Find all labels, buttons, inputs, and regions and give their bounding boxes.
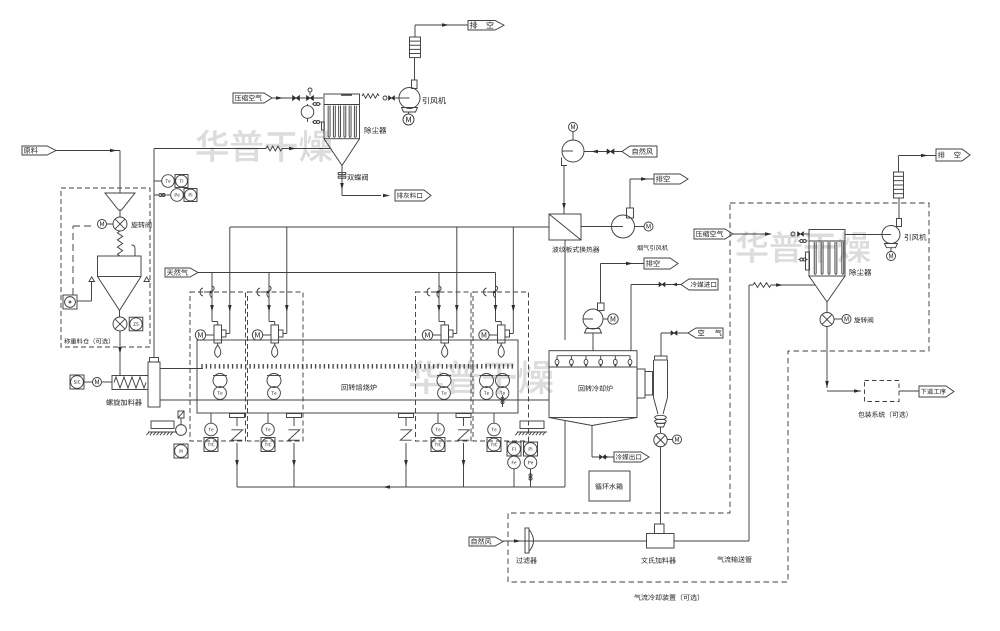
dust collector 1 cone (324, 139, 342, 166)
label rotary kiln (342, 384, 377, 391)
watermark 3 (736, 231, 870, 263)
rotary valve 3 motor (842, 315, 851, 324)
plate heat exchanger (549, 214, 581, 240)
burner group 2 dashed box (248, 292, 304, 441)
flue gas fan (612, 215, 635, 238)
label rotary valve V1 (131, 222, 151, 228)
flag: ash discharge port (395, 190, 431, 201)
kiln gas tap (502, 395, 504, 407)
burner 4 air drop (512, 227, 514, 313)
burner group 3 dashed box (416, 292, 472, 441)
flag: natural gas 天然气 (165, 268, 198, 277)
pressure gauge (301, 106, 314, 119)
label rotary valve 3 (854, 317, 873, 323)
burner 1 body (214, 325, 222, 343)
wire raw-material to funnel (56, 150, 120, 152)
kiln thermocouple at 502.5 (496, 375, 510, 377)
wire kiln exhaust riser (153, 149, 155, 358)
wire natural gas header (198, 272, 496, 274)
cyclone lid (655, 356, 668, 360)
kiln bottom instrument at 494 (493, 413, 495, 423)
discharge valve V2 (113, 317, 127, 331)
cyclone valve motor (673, 435, 682, 444)
cyclone butterfly (655, 415, 667, 419)
flag: coolant outlet 冷媒出口 (614, 452, 649, 462)
wire coolant outlet (591, 426, 593, 458)
burner 4 motor (479, 330, 489, 340)
cyclone body (653, 360, 655, 398)
flag: compressed air 压缩空气 (233, 93, 272, 103)
burner 3 air drop (456, 227, 458, 313)
dust collector 2 bags (813, 242, 815, 274)
exhaust instruments PI (154, 194, 170, 196)
wire exhaust to dust collector (154, 148, 266, 150)
kiln support left (151, 421, 174, 429)
wire fan to exchanger (563, 166, 565, 215)
flag: natural wind 自然风 bottom (469, 537, 503, 546)
burner 4 body (498, 325, 506, 343)
kiln thermocouple at 486.5 (480, 375, 494, 377)
rotary kiln shell (197, 340, 518, 413)
burner 3 gas drop (438, 273, 440, 314)
circulating water tank (589, 471, 630, 501)
watermark 1 (196, 130, 332, 162)
wire exchanger to cooler (564, 240, 566, 340)
wire fan1 to silencer (414, 58, 416, 80)
valve on air line (293, 96, 300, 101)
dust collector 2 housing (809, 230, 845, 277)
dust collector 2 cone (809, 276, 827, 302)
burner 4 gas drop (495, 273, 497, 314)
venturi feeder (655, 524, 665, 534)
burner 2 gas drop (268, 273, 270, 314)
wire compressed air (272, 97, 323, 99)
feeder motor M2 (93, 378, 102, 387)
label dust collector 2 (850, 269, 872, 276)
label air cooling unit (634, 594, 699, 601)
weight transmitter (63, 295, 77, 309)
load cell right (144, 277, 150, 282)
packaging system dashed box (865, 381, 900, 402)
burner 3 check valve (427, 288, 430, 296)
wire kiln bottom header (237, 486, 565, 488)
kiln thermocouple at 274 (267, 375, 281, 377)
label filter (516, 557, 537, 563)
flag: air 空气 (688, 328, 723, 338)
rotary cooler body (549, 367, 637, 418)
cooler discharge boxes (637, 369, 645, 398)
burner 1 motor (195, 330, 205, 340)
valve V2 instrument (129, 317, 143, 331)
feeder instrument (70, 375, 84, 389)
kiln thermocouple at 444 (437, 375, 451, 377)
wire collector2 to fan2 (845, 234, 882, 236)
wire packaging to next (899, 390, 919, 392)
flex connector on conveying pipe (753, 283, 771, 288)
dashed region: optional equipment (508, 203, 929, 582)
label heat exchanger (552, 246, 599, 252)
kiln inner top line (161, 368, 204, 370)
pulse air header (322, 122, 325, 130)
flex connector (266, 146, 282, 151)
silencer coil (410, 37, 421, 58)
burner 2 body (271, 325, 279, 343)
flag: vent 排空 pump (644, 258, 678, 269)
burner 4 check valve (484, 288, 487, 296)
label conveying pipe (717, 556, 751, 562)
flag: raw material 原料 (22, 146, 56, 155)
kiln seal vent at 237 (230, 414, 245, 418)
fan 1 motor (403, 114, 414, 125)
flag: vent 排空 mid (654, 174, 688, 184)
label rotary cooler (579, 385, 613, 392)
burner 3 body (441, 325, 449, 343)
burner 2 air drop (286, 227, 288, 313)
induced draft fan 2 (882, 226, 900, 244)
wire conveying pipe (674, 540, 749, 542)
exhaust instruments TI (154, 180, 162, 182)
burner group 4 dashed box (473, 292, 529, 441)
cooler bottom funnel (549, 418, 592, 426)
air filter (525, 528, 529, 553)
wire to packaging (826, 327, 828, 389)
label packaging system (858, 411, 907, 417)
wire fan2 vent (898, 156, 900, 173)
label venturi feeder (641, 557, 676, 564)
label dust collector 1 (365, 127, 387, 134)
load cell signal wire (91, 282, 93, 302)
flag: next process 下道工序 (919, 386, 954, 397)
wire pump vent (600, 264, 602, 304)
cooling water pump (583, 309, 603, 329)
burner 1 check valve (200, 288, 203, 296)
label weighing silo (64, 338, 110, 344)
fresh air fan motor (569, 123, 578, 132)
gas train instrument circles (508, 456, 521, 469)
burner 1 flame (217, 343, 219, 345)
flag: compressed air 2 (694, 229, 733, 239)
double butterfly valve (341, 166, 343, 196)
burner 1 air drop (229, 227, 231, 313)
kiln bottom instrument at 268 (267, 413, 269, 423)
burner 1 gas drop (211, 273, 213, 314)
wire header riser to cooler (564, 421, 566, 487)
wire conveying air (503, 540, 647, 542)
flex connector to fan (362, 94, 379, 98)
burner 3 flame (444, 343, 446, 345)
filter bags (327, 106, 329, 137)
kiln thermocouple at 220 (213, 375, 227, 377)
pulse header 2 (806, 252, 810, 270)
rotary valve V1 (113, 217, 127, 231)
wire flue fan to vent (629, 179, 631, 208)
flue fan motor (644, 222, 653, 231)
kiln bottom instrument at 438 (437, 413, 439, 423)
label double butterfly valve (347, 174, 368, 181)
wire preheated air header (230, 226, 549, 228)
wire exchanger to flue fan (581, 226, 612, 228)
burner 4 flame (500, 343, 502, 345)
weighing hopper body (98, 256, 142, 277)
spring connector (117, 231, 122, 256)
cyclone cone (654, 398, 659, 415)
burner 3 motor (422, 330, 432, 340)
burner 2 check valve (257, 288, 260, 296)
wire valve to venturi (660, 447, 662, 524)
gas train instrument squares (507, 442, 521, 456)
wire coolant inlet (631, 284, 681, 286)
chute drive instrument (174, 444, 188, 458)
cooler spray plenum (549, 351, 637, 367)
dust collector 1 housing (324, 94, 360, 139)
flag: vent 排空 right (936, 149, 970, 161)
cyclone discharge valve (654, 433, 667, 446)
label screw feeder (106, 399, 142, 406)
load cell left (89, 277, 95, 282)
flag: vent 排空 top (468, 21, 504, 31)
pump motor (608, 314, 618, 324)
kiln support right (520, 421, 544, 429)
fan 2 motor (887, 252, 896, 261)
burner 2 motor (252, 330, 262, 340)
rotary valve 3 (826, 302, 828, 313)
label fan 1 (423, 97, 446, 104)
wire to screw feeder (119, 331, 121, 376)
kiln seal vent at 463.5 (456, 414, 471, 418)
valve before fan (383, 96, 387, 100)
funnel (105, 193, 135, 210)
label fan 2 (905, 234, 927, 241)
induced draft fan 1 (399, 88, 420, 109)
kiln gear ticks (202, 364, 512, 369)
label flue gas fan (637, 245, 668, 251)
globe valve (307, 96, 314, 101)
burner group 1 dashed box (190, 292, 246, 441)
chute drive motor (176, 425, 187, 436)
wire to vent (414, 25, 416, 37)
silencer coil 2 (898, 198, 900, 219)
signal line (dashed) (72, 226, 74, 295)
hopper cone (98, 277, 120, 311)
motor M1 (98, 220, 107, 229)
kiln inlet chute (148, 362, 160, 407)
chute drive coupling (178, 411, 184, 418)
wire compressed air 2 (733, 233, 766, 235)
flag: coolant inlet 冷媒进口 (681, 279, 718, 290)
burner 2 flame (274, 343, 276, 345)
flag: natural wind 自然风 top (622, 146, 657, 157)
wire air to cyclone (661, 332, 688, 334)
kiln seal vent at 406 (399, 414, 414, 418)
kiln inner bottom line (161, 399, 550, 401)
wire to ash port (342, 195, 381, 197)
wire cone to discharge valve (119, 311, 121, 318)
kiln bottom instrument at 211 (210, 413, 212, 423)
dashed box: weighing silo (optional) (61, 188, 150, 347)
screw feeder body (112, 376, 148, 390)
kiln seal vent at 294 (287, 414, 302, 418)
watermark 2 (409, 360, 553, 394)
fresh air fan (562, 140, 584, 162)
label circulating water tank (595, 483, 622, 490)
